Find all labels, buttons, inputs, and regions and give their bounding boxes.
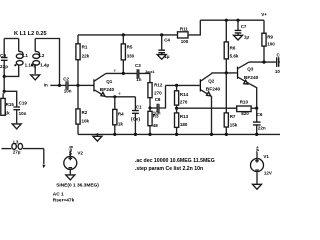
wire L3 to flag bbox=[43, 149, 45, 165]
resistor R6 bbox=[224, 20, 239, 73]
wire top-left L1 hook bbox=[4, 38, 19, 40]
svg-text:V+: V+ bbox=[255, 146, 260, 152]
wire left rail lower bbox=[3, 61, 5, 92]
svg-text:R15: R15 bbox=[6, 102, 15, 107]
wire in label stub bbox=[50, 84, 59, 86]
resistor R13 bbox=[175, 108, 189, 134]
wire V+ rail bbox=[200, 19, 264, 21]
svg-text:R7: R7 bbox=[230, 114, 236, 119]
svg-text:BF240: BF240 bbox=[244, 75, 259, 81]
resistor R12 bbox=[148, 83, 163, 108]
svg-text:R10: R10 bbox=[240, 100, 249, 105]
capacitor C8 bbox=[150, 85, 166, 115]
wire feedback bus bbox=[177, 107, 237, 109]
wire top rail left bbox=[78, 34, 178, 36]
junction R9 bottom bbox=[262, 61, 265, 64]
wire L1 bottom to rail bbox=[4, 66, 19, 77]
svg-text:V+: V+ bbox=[261, 12, 267, 17]
svg-text:R13: R13 bbox=[180, 114, 189, 119]
wire C19 to ground bbox=[16, 110, 18, 124]
wire Q2 base bus bbox=[166, 84, 200, 86]
junction R14 top bbox=[175, 84, 178, 87]
svg-text:330: 330 bbox=[127, 54, 135, 59]
junction rail R4 bbox=[113, 133, 116, 136]
junction rail R13 bbox=[175, 133, 178, 136]
junction in node bbox=[58, 84, 61, 87]
wire bottom ground rail bbox=[78, 133, 280, 135]
svg-text:L3: L3 bbox=[13, 140, 19, 145]
wire in node to C2 bbox=[60, 84, 66, 86]
svg-text:270: 270 bbox=[180, 100, 188, 105]
svg-text:c: c bbox=[114, 68, 116, 72]
ground under L2 bbox=[31, 75, 40, 80]
resistor R11 bbox=[178, 27, 189, 44]
svg-text:C7: C7 bbox=[241, 24, 247, 29]
svg-text:e: e bbox=[119, 91, 121, 95]
phase dot L2 bbox=[31, 64, 33, 66]
ground on rail bbox=[93, 134, 102, 141]
svg-text:Rser=47k: Rser=47k bbox=[53, 197, 75, 203]
svg-text:.ac dec 10000 10.6MEG 11.5MEG: .ac dec 10000 10.6MEG 11.5MEG bbox=[135, 158, 215, 164]
inductor L2 bbox=[33, 39, 50, 74]
junction R5 top bbox=[122, 33, 125, 36]
junction R5 bottom bbox=[122, 72, 125, 75]
svg-text:1µ: 1µ bbox=[244, 34, 250, 39]
svg-text:R11: R11 bbox=[180, 27, 189, 32]
capacitor C5 output bbox=[275, 53, 283, 75]
wire base node to Q1 bbox=[78, 84, 94, 86]
svg-text:1k: 1k bbox=[5, 111, 11, 116]
junction R13 top bbox=[175, 107, 178, 110]
junction Q1 base node bbox=[76, 84, 79, 87]
node flag antenna bbox=[42, 165, 45, 169]
svg-text:C5: C5 bbox=[277, 53, 281, 58]
resistor R4 bbox=[113, 97, 124, 135]
wire Q1 collector bus bbox=[106, 72, 137, 74]
svg-text:K L1 L2 0.25: K L1 L2 0.25 bbox=[14, 31, 47, 37]
resistor R1 bbox=[76, 35, 90, 86]
junction C19 node bbox=[3, 90, 6, 93]
svg-text:1n: 1n bbox=[136, 77, 142, 82]
transistor Q3 bbox=[237, 62, 259, 108]
transistor Q1 bbox=[93, 73, 114, 96]
svg-text:22n: 22n bbox=[258, 126, 266, 131]
svg-text:Q3: Q3 bbox=[247, 67, 254, 72]
svg-text:BF240: BF240 bbox=[206, 87, 221, 93]
svg-text:C9: C9 bbox=[0, 53, 6, 58]
svg-text:L2: L2 bbox=[39, 53, 45, 58]
ground under C7 bbox=[234, 35, 243, 40]
wire rail to R15 bbox=[3, 91, 4, 98]
svg-text:180: 180 bbox=[180, 122, 188, 127]
inductor L3 bbox=[2, 140, 44, 155]
svg-text:1.4µ: 1.4µ bbox=[40, 62, 49, 67]
svg-text:R2: R2 bbox=[82, 110, 88, 115]
wire Q1 emitter bus bbox=[106, 96, 136, 98]
svg-text:C1: C1 bbox=[136, 104, 142, 109]
svg-text:C4: C4 bbox=[164, 37, 170, 42]
capacitor C9 bbox=[0, 53, 8, 69]
junction Q3 emitter node bbox=[255, 107, 258, 110]
wire C3 to Aux1 corner bbox=[139, 73, 150, 82]
resistor R3 bbox=[148, 108, 159, 134]
ground under C19 bbox=[12, 124, 21, 129]
svg-text:in: in bbox=[44, 82, 48, 87]
svg-text:12V: 12V bbox=[264, 170, 272, 175]
junction rail Q2 emitter bbox=[210, 133, 213, 136]
svg-text:R12: R12 bbox=[154, 83, 163, 88]
ground under V1 bbox=[253, 184, 262, 189]
svg-text:R4: R4 bbox=[118, 112, 124, 117]
svg-text:R6: R6 bbox=[230, 46, 236, 51]
svg-text:SINE(0 1 36.3MEG): SINE(0 1 36.3MEG) bbox=[56, 182, 99, 188]
svg-text:R3: R3 bbox=[153, 114, 159, 119]
svg-text:48: 48 bbox=[153, 123, 159, 128]
junction R6 top bbox=[225, 19, 228, 22]
svg-text:V1: V1 bbox=[263, 154, 269, 159]
voltage source V2 bbox=[64, 146, 84, 175]
capacitor C19 bbox=[13, 100, 27, 115]
resistor R9 bbox=[262, 20, 275, 62]
wire Q2 collector to Q3 base bbox=[212, 72, 237, 74]
svg-text:V2: V2 bbox=[77, 150, 83, 155]
svg-text:10k: 10k bbox=[82, 119, 90, 124]
svg-text:22k: 22k bbox=[82, 53, 90, 58]
svg-text:.step param Ce list 2.2n 10n: .step param Ce list 2.2n 10n bbox=[135, 166, 203, 172]
junction rail C6 bbox=[255, 133, 258, 136]
svg-text:10n: 10n bbox=[19, 111, 27, 116]
svg-text:100: 100 bbox=[181, 39, 189, 44]
svg-text:820: 820 bbox=[241, 111, 249, 116]
capacitor C2 bbox=[63, 76, 71, 93]
junction rail R7 bbox=[225, 133, 228, 136]
svg-text:L1: L1 bbox=[23, 53, 29, 58]
wire left rail upper bbox=[3, 39, 5, 57]
svg-text:R1: R1 bbox=[82, 45, 88, 50]
svg-text:C2: C2 bbox=[63, 76, 69, 81]
transistor Q2 bbox=[200, 73, 221, 134]
svg-text:270: 270 bbox=[154, 91, 162, 96]
junction C7 top bbox=[236, 19, 239, 22]
resistor R5 bbox=[121, 35, 134, 74]
junction R4 top bbox=[113, 95, 116, 98]
capacitor C3 bbox=[135, 63, 142, 82]
junction rail ground tap bbox=[96, 133, 98, 135]
svg-text:BF240: BF240 bbox=[100, 87, 115, 93]
junction R12 bottom C8 node bbox=[148, 106, 151, 109]
capacitor C6 bbox=[253, 108, 266, 134]
junction L1 bottom node bbox=[3, 75, 6, 78]
svg-text:1k: 1k bbox=[118, 121, 124, 126]
svg-text:10n: 10n bbox=[275, 69, 280, 74]
wire top rail right of R11 bbox=[188, 20, 200, 35]
svg-text:Aux1: Aux1 bbox=[145, 69, 155, 74]
wire C2 to Q1 base node bbox=[68, 84, 78, 86]
svg-text:10n: 10n bbox=[64, 89, 72, 94]
svg-text:R5: R5 bbox=[127, 45, 133, 50]
resistor R7 bbox=[224, 73, 238, 134]
svg-text:27µ: 27µ bbox=[13, 150, 21, 155]
inductor L1 bbox=[16, 39, 36, 68]
junction R6 bottom bbox=[225, 71, 228, 74]
capacitor C1 bbox=[131, 97, 142, 135]
junction rail C1 bbox=[134, 133, 137, 136]
wire Q3 collector bus bbox=[249, 61, 276, 63]
svg-text:5.6k: 5.6k bbox=[230, 53, 239, 58]
junction C4 top bbox=[160, 33, 163, 36]
resistor R15 bbox=[1, 98, 15, 115]
svg-text:C3: C3 bbox=[135, 63, 141, 68]
svg-text:R14: R14 bbox=[180, 92, 189, 97]
svg-text:AC 1: AC 1 bbox=[53, 191, 64, 197]
svg-text:100: 100 bbox=[267, 42, 275, 47]
capacitor C4 bbox=[158, 35, 170, 59]
junction rail R3 bbox=[148, 133, 151, 136]
wire L2 top to in node bbox=[35, 39, 59, 86]
ground under C4 bbox=[157, 55, 166, 60]
resistor R10 bbox=[237, 100, 257, 116]
resistor R14 bbox=[175, 85, 189, 108]
svg-text:Q1: Q1 bbox=[106, 79, 113, 84]
svg-text:15k: 15k bbox=[230, 122, 238, 127]
svg-text:C19: C19 bbox=[19, 100, 28, 105]
svg-text:C8: C8 bbox=[155, 97, 161, 102]
resistor R2 bbox=[76, 85, 90, 134]
voltage source V1 bbox=[251, 146, 272, 185]
capacitor C7 bbox=[235, 20, 250, 39]
wire node to C19 bbox=[4, 91, 17, 106]
svg-text:{Ce}: {Ce} bbox=[131, 116, 141, 121]
svg-text:C6: C6 bbox=[257, 112, 263, 117]
phase dot L1 bbox=[14, 64, 16, 66]
svg-text:Q2: Q2 bbox=[208, 78, 215, 83]
svg-text:R9: R9 bbox=[267, 34, 273, 39]
ground under V2 bbox=[66, 175, 75, 180]
